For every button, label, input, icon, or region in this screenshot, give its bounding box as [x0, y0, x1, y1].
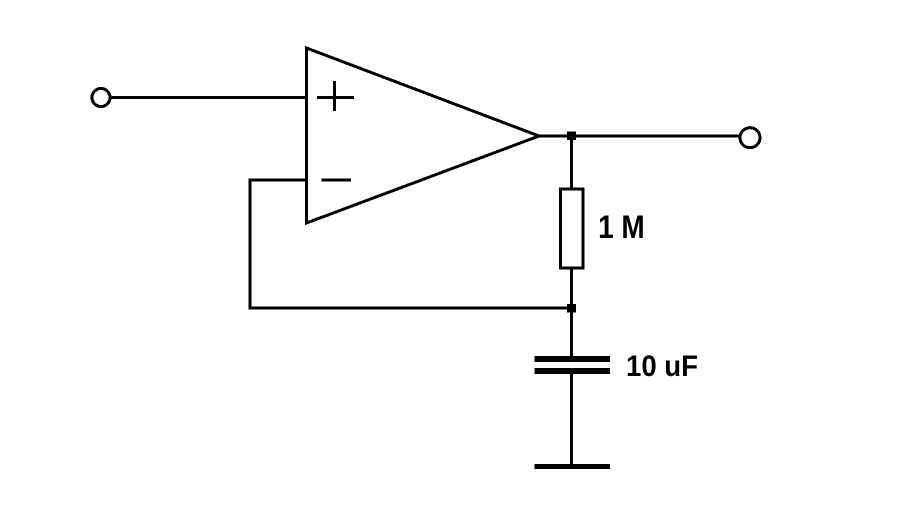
- wire: op-amp output to output terminal: [538, 135, 740, 138]
- node A junction dot (output / resistor top): [567, 132, 576, 141]
- capacitor C1 top plate: [535, 356, 611, 362]
- wire: node A down to resistor: [570, 136, 573, 189]
- wire: resistor bottom to node B: [570, 268, 573, 308]
- svg-text:1 M: 1 M: [598, 210, 645, 245]
- resistor R1 body: [561, 189, 583, 268]
- op-amp minus (inverting) pin marker: [322, 179, 352, 182]
- svg-text:10 uF: 10 uF: [626, 350, 698, 383]
- ground: [535, 464, 611, 469]
- op-amp U1 triangle: [307, 48, 540, 223]
- node B junction dot (feedback / capacitor top): [567, 304, 576, 313]
- wire: capacitor bottom to ground: [570, 374, 573, 464]
- output terminal node: [740, 128, 760, 148]
- wire: node B down to capacitor: [570, 308, 573, 356]
- wire: input terminal to op-amp non-inverting input: [110, 96, 307, 99]
- capacitor C1 bottom plate: [535, 368, 611, 374]
- input terminal node: [92, 89, 110, 107]
- op-amp plus (non-inverting) pin marker: [317, 81, 354, 111]
- wire: feedback from inverting input down and right to node B: [250, 180, 572, 308]
